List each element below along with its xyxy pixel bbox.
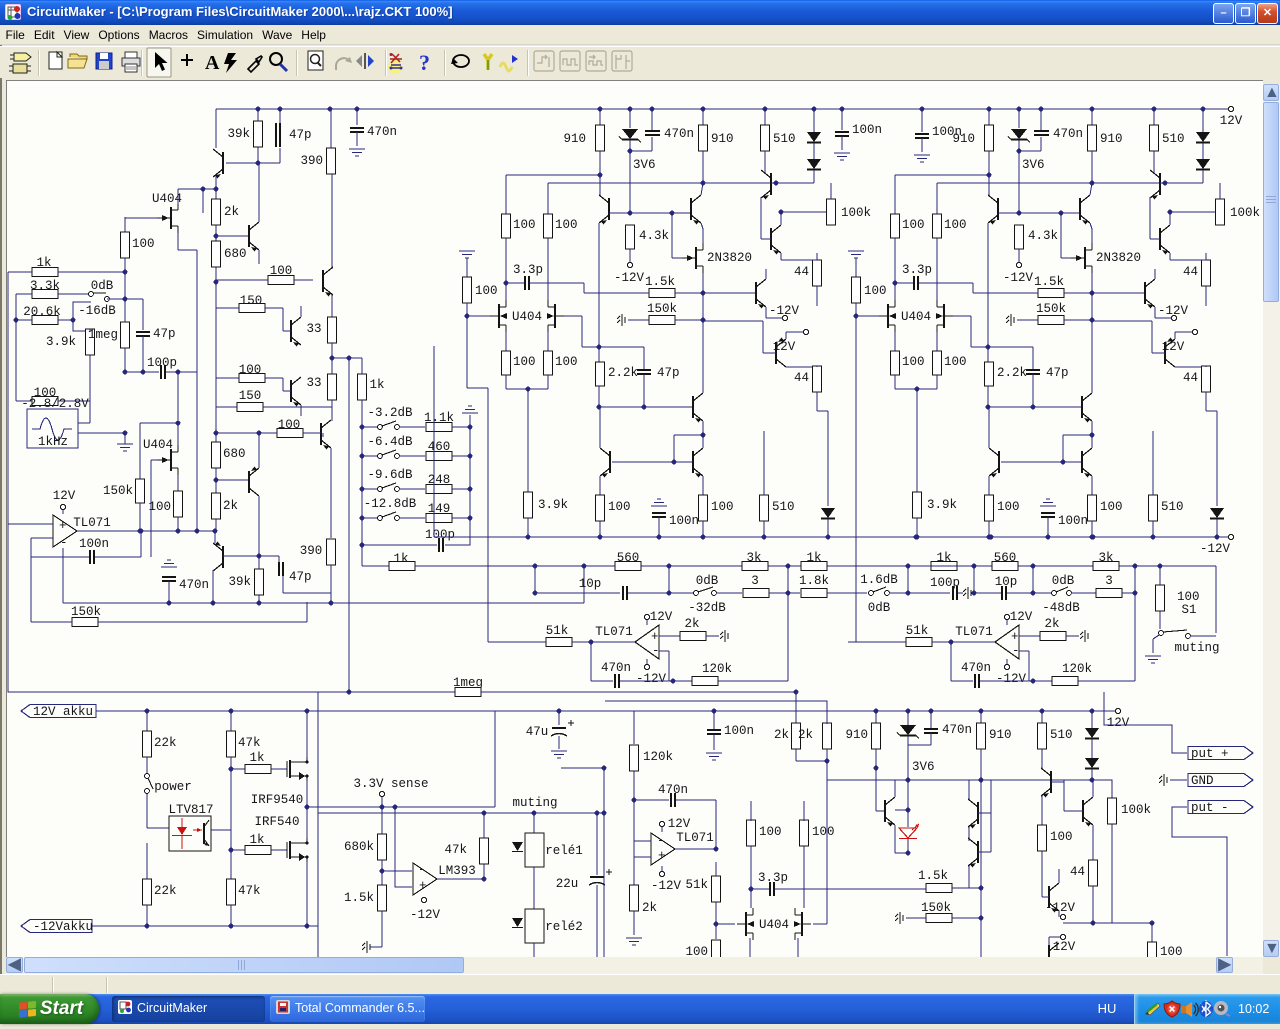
svg-text:-32dB: -32dB: [688, 601, 726, 615]
wire L Q8 coll: [599, 407, 601, 448]
wire R Q2 coll link: [1090, 183, 1092, 195]
junction rail x599: [598, 107, 603, 112]
terminal -12V aux: [659, 871, 664, 876]
wire 3R lead: [1071, 592, 1096, 594]
svg-text:3.9k: 3.9k: [538, 498, 568, 512]
capacitor L 100n out: [652, 513, 699, 528]
resistor 22k a: [143, 731, 177, 757]
wire svL minus lead: [659, 650, 669, 652]
language indicator HU: [1092, 994, 1122, 1024]
junction svL fb node: [671, 679, 676, 684]
svg-text:12V: 12V: [1107, 716, 1130, 730]
svg-text:120k: 120k: [702, 662, 732, 676]
wire 1k ladder top: [361, 358, 363, 374]
terminal 12V rail: [1228, 106, 1233, 111]
resistor R 100 drainR: [933, 214, 967, 238]
resistor svL 2k op: [680, 617, 706, 641]
wire u404b drain: [177, 423, 179, 445]
wire r2 left: [216, 307, 239, 309]
op-amp TL071 servo L: [53, 515, 77, 547]
svg-text:10:02: 10:02: [1238, 1002, 1269, 1016]
svg-text:1meg: 1meg: [88, 328, 118, 342]
transistor Q17: [321, 420, 331, 450]
wire R 3.3p lead L: [895, 282, 913, 284]
wire gate riser: [124, 217, 126, 299]
wire 150k riser: [139, 423, 141, 479]
wire R 1.5k left: [973, 292, 1038, 294]
resistor 33 b: [328, 374, 337, 400]
magnifier: [270, 53, 282, 65]
svg-text:TL071: TL071: [676, 831, 714, 845]
wire 100 e bottom: [1041, 851, 1043, 897]
capacitor 100p mid: [953, 586, 957, 600]
svg-text:12V: 12V: [650, 610, 673, 624]
svg-text:120k: 120k: [643, 750, 673, 764]
svg-text:47u: 47u: [526, 725, 549, 739]
junction b188b: [214, 187, 219, 192]
resistor 2k low: [212, 493, 239, 519]
wire 22k a bottom: [146, 757, 148, 773]
wire L Q3 emit riser: [760, 197, 762, 239]
wire row565: [415, 565, 930, 567]
svg-text:470n: 470n: [658, 783, 688, 797]
wire q22 base: [1051, 781, 1064, 783]
junction rail710 x875: [874, 709, 879, 714]
junction rail x629: [628, 107, 633, 112]
wire bus 700: [605, 701, 827, 761]
svg-text:2.2k: 2.2k: [997, 366, 1027, 380]
svg-text:44: 44: [794, 371, 809, 385]
wire 100 h bottom: [803, 846, 805, 908]
svg-text:100: 100: [475, 284, 498, 298]
wire R 100k top: [1219, 183, 1221, 199]
wire 3.9k top: [89, 329, 91, 331]
wire L gateL lead: [467, 315, 491, 317]
svg-text:IRF540: IRF540: [254, 815, 299, 829]
wire 1032 riser: [1032, 566, 1034, 593]
junction rail x257: [256, 107, 261, 112]
junction L outA rail: [598, 535, 603, 540]
capacitor 100p in: [161, 365, 165, 379]
ground 100n a: [834, 153, 850, 160]
wire x603: [561, 768, 604, 957]
svg-text:100: 100: [759, 825, 782, 839]
browse parts icon: [9, 53, 31, 73]
capacitor 3.3p b: [758, 871, 788, 896]
svg-text:47p: 47p: [1046, 366, 1069, 380]
transistor Q20: [968, 799, 978, 829]
svg-text:100n: 100n: [852, 123, 882, 137]
svg-text:1k: 1k: [249, 833, 264, 847]
wire 470n out bottom: [168, 581, 170, 603]
wire R outA bottom: [988, 521, 990, 537]
wire row779 ext: [981, 780, 1112, 799]
transistor Q21: [968, 838, 978, 868]
junction row565R x1032: [1031, 564, 1036, 569]
wire R 44a top: [1205, 253, 1207, 260]
wire L darl drop: [673, 435, 675, 462]
svg-text:100: 100: [1050, 830, 1073, 844]
resistor R 100 drainL: [891, 214, 925, 238]
wire L gnd to R100: [466, 258, 468, 277]
transistor L Q5: [756, 279, 766, 309]
wire fb drop b: [715, 800, 717, 849]
wire 787 riser: [787, 566, 789, 593]
wire R Q5 term lead: [1155, 317, 1171, 319]
svg-text:put -: put -: [1191, 801, 1229, 815]
wire R D3 bottom: [1216, 519, 1218, 537]
svg-text:relé1: relé1: [545, 844, 583, 858]
wire L Q1 coll: [599, 175, 601, 195]
svg-text:-12V: -12V: [1045, 901, 1076, 915]
wire L 12V lead: [786, 331, 803, 333]
junction n281: [214, 280, 219, 285]
resistor 44 c: [1070, 860, 1098, 886]
svg-text:510: 510: [1050, 728, 1073, 742]
wire col215: [215, 282, 217, 308]
wire 3.3p b out: [775, 888, 881, 890]
resistor 3 L: [743, 589, 769, 598]
wire L gateR link: [582, 346, 599, 348]
capacitor 100n fb: [90, 550, 94, 564]
svg-text:2N3820: 2N3820: [1096, 251, 1141, 265]
wire 47p bottom: [142, 336, 144, 372]
svg-text:390: 390: [300, 544, 323, 558]
ground 100n c: [706, 753, 722, 760]
junction L n346: [597, 345, 602, 350]
wire 100p mid lead: [908, 592, 950, 594]
JFET U404 1: [157, 203, 178, 233]
diode L D2: [807, 159, 821, 170]
wire L 910b top: [702, 109, 704, 125]
svg-text:100p: 100p: [147, 356, 177, 370]
resistor 1k L2: [801, 562, 827, 571]
transistor Q18: [249, 467, 259, 497]
resistor R 910a: [952, 125, 993, 151]
junction rail710 x558: [557, 709, 562, 714]
wire R 2.2k bottom: [987, 386, 989, 407]
MOSFET IRF9540: [287, 757, 309, 781]
signal ground GND flag: [1159, 774, 1167, 786]
svg-text:100n: 100n: [669, 514, 699, 528]
new: [49, 52, 62, 69]
wire L drainL riser: [505, 175, 507, 214]
wire L 1.5k left: [584, 292, 649, 294]
wire ladder -6.4dB mid: [399, 455, 425, 457]
wire 100p gnd lead: [958, 592, 963, 594]
wire q22 coll: [1041, 763, 1043, 768]
resistor 39k low: [228, 569, 263, 595]
wire R zener top: [1018, 109, 1020, 128]
wire R Q2 emit link: [1090, 223, 1092, 229]
wire -16dB throw: [73, 302, 91, 331]
junction row592 aa: [667, 591, 672, 596]
resistor L 910a: [563, 125, 604, 151]
svg-text:0dB: 0dB: [868, 601, 891, 615]
wire aux col: [633, 841, 635, 857]
wire svR 120k out: [1078, 680, 1135, 682]
wire L 12V drop: [785, 332, 787, 339]
wire L 510 bottom: [764, 151, 766, 173]
wire R R100 to gate: [855, 303, 857, 316]
wire n249 drop: [196, 250, 198, 372]
wire L 3.3p drop: [583, 283, 585, 293]
resistor 100 f: [1148, 942, 1183, 960]
wire 150k fb right: [98, 621, 307, 623]
wire r1 left: [216, 279, 268, 281]
wire R 3.9k to rail: [916, 518, 918, 537]
ground R 100n out: [1040, 499, 1056, 506]
resistor R 100 outA: [985, 495, 1020, 521]
svg-text:-12.8dB: -12.8dB: [364, 497, 417, 511]
resistor 100 r1: [268, 276, 294, 285]
wire L 2.2k top: [598, 347, 600, 362]
wire L srcL tail: [505, 375, 507, 389]
wire 47k b top: [230, 830, 232, 879]
wire 47p top drop: [279, 148, 281, 163]
resistor svL 120k: [692, 662, 732, 686]
wire R darl link: [1063, 434, 1092, 436]
resistor L 100 outB: [699, 495, 734, 521]
wire lm393 minus: [382, 870, 412, 872]
wire L Q10 emit: [702, 476, 704, 495]
wire zener c bottom: [907, 736, 909, 827]
junction rail710 x1041: [1040, 709, 1045, 714]
junction n432b: [257, 431, 262, 436]
junction L tail: [526, 387, 531, 392]
svg-text:510: 510: [773, 132, 796, 146]
svg-text:100: 100: [555, 218, 578, 232]
resistor 149: [426, 514, 452, 523]
resistor 1meg: [88, 322, 130, 348]
wire 433 riser: [433, 346, 435, 537]
svg-text:12V: 12V: [1220, 114, 1243, 128]
wire left bus: [7, 272, 9, 524]
wire R vas riser: [1091, 293, 1093, 384]
wire R Q4 emit: [1169, 253, 1171, 260]
window title bar: [0, 0, 1280, 25]
wire u404c gateL lead: [716, 923, 735, 925]
wire svR minus drop: [1028, 651, 1030, 681]
wire 1.5k b right: [952, 887, 981, 889]
transistor R Q7: [1082, 393, 1092, 423]
junction R n406b: [1031, 405, 1036, 410]
wire svL 2k gnd lead: [706, 635, 719, 637]
transistor L Q7: [693, 393, 703, 423]
wire 2k pair link: [796, 760, 827, 762]
wire L Q5 term lead: [766, 317, 782, 319]
wire R 910a bottom: [988, 151, 990, 175]
JFET R 2N3820: [1071, 243, 1092, 273]
wire src gnd drop: [124, 433, 126, 444]
resistor 390 top: [300, 148, 335, 174]
wire R Q4 base: [1150, 238, 1160, 240]
ground 47u: [551, 751, 567, 758]
op-amp marks tl1: [59, 519, 68, 550]
wire R cap stub: [1040, 137, 1042, 151]
wire u404c srcL: [749, 938, 751, 957]
svg-text:39k: 39k: [228, 575, 251, 589]
wire L 510low top: [763, 431, 765, 495]
junction q11 rail: [211, 601, 216, 606]
op-amp svL TL071: [635, 625, 659, 659]
wire 980 col: [980, 780, 982, 918]
wire r3 right: [265, 377, 283, 379]
transistor Q24: [1049, 883, 1059, 913]
junction n479: [214, 478, 219, 483]
svg-text:910: 910: [1100, 132, 1123, 146]
terminal svR 12V: [1004, 614, 1009, 619]
wire 3R out: [1122, 592, 1135, 594]
wire R 47p bottom: [1032, 374, 1034, 407]
ground ladder: [462, 406, 478, 413]
wire L zener top: [629, 109, 631, 128]
resistor R 44b: [1183, 366, 1211, 392]
capacitor R 470n: [1034, 127, 1083, 141]
junction 1.5k out: [979, 886, 984, 891]
wire 47k a top: [230, 711, 232, 731]
junction drain2: [176, 421, 181, 426]
wire 150k bottom: [139, 503, 141, 531]
wire L srcR tail: [547, 375, 549, 389]
wire aux v-: [661, 866, 663, 871]
wire q23 base riser: [1063, 782, 1065, 811]
junction 470n rail: [167, 601, 172, 606]
wire 2k1 bottom: [215, 225, 217, 241]
junction n162: [256, 161, 261, 166]
wire R 2N3820 gate: [1061, 257, 1071, 259]
svg-text:100: 100: [1177, 590, 1200, 604]
wire 33 to ladder: [332, 357, 362, 359]
capacitor 47p top: [276, 123, 312, 147]
svg-text:44: 44: [794, 265, 809, 279]
wire q17 emit drop: [330, 448, 332, 538]
wire L 44a link: [781, 259, 817, 261]
junction L n406b: [642, 405, 647, 410]
wire fb to 1meg: [348, 358, 350, 692]
junction R n182: [1090, 181, 1095, 186]
wire R srcR tail: [936, 375, 938, 389]
wire 100 S1 top: [1159, 566, 1161, 585]
svg-text:100: 100: [902, 218, 925, 232]
svg-text:3V6: 3V6: [912, 760, 935, 774]
zener L 3V6: [619, 129, 641, 143]
junction L base node: [628, 211, 633, 216]
svg-text:100n: 100n: [932, 125, 962, 139]
svg-text:3.9k: 3.9k: [927, 498, 957, 512]
junction 33ab: [330, 356, 335, 361]
resistor R 3.9k: [913, 492, 958, 518]
junction x603: [602, 766, 607, 771]
switch -9.6dB: [378, 483, 400, 491]
junction R n174: [987, 173, 992, 178]
wire 390low bottom: [330, 565, 332, 603]
wire L 3.3p lead R: [530, 282, 584, 284]
save: [96, 53, 112, 69]
wire svR plus lead: [1019, 635, 1040, 637]
svg-text:100: 100: [1100, 500, 1123, 514]
svg-text:+: +: [1011, 630, 1019, 644]
junction fb 1meg: [347, 690, 352, 695]
wire r4 drop: [331, 407, 333, 421]
junction u404c gateL: [714, 922, 719, 927]
svg-text:2k: 2k: [224, 205, 239, 219]
resistor R 510: [1150, 125, 1185, 151]
wire 1meg right: [481, 691, 796, 693]
junction n371c: [176, 370, 181, 375]
svg-text:100: 100: [711, 500, 734, 514]
wire q12 base: [226, 162, 258, 164]
wire R 2.2k top: [987, 347, 989, 362]
wire 9540 src: [306, 781, 308, 807]
junction R n319: [1090, 318, 1095, 323]
svg-text:3.3p: 3.3p: [758, 871, 788, 885]
wire 1k a lead: [231, 768, 245, 770]
wire col215b: [215, 407, 217, 443]
svg-text:3V6: 3V6: [633, 158, 656, 172]
junction row565 x534: [533, 564, 538, 569]
resistor L 3.9k: [524, 492, 569, 518]
wire 3.3p b lead: [751, 888, 769, 890]
svg-text:47k: 47k: [238, 736, 261, 750]
connector put -: [1188, 801, 1253, 816]
junction L 3.3p L: [504, 281, 509, 286]
wire -12Vakku rail: [92, 925, 318, 927]
ground S1: [1145, 656, 1161, 663]
resistor 100 r3: [239, 374, 265, 383]
wire sense stub: [381, 797, 383, 807]
wire L base link: [630, 212, 672, 214]
wire q15 base: [283, 330, 291, 332]
transistor Q11: [213, 542, 223, 572]
resistor 560 R: [992, 562, 1018, 571]
svg-text:TL071: TL071: [595, 625, 633, 639]
zener R 3V6: [1008, 129, 1030, 143]
resistor 1k in: [32, 268, 58, 277]
wire 33b top: [331, 358, 333, 374]
wrench Y: [484, 54, 492, 70]
transistor L Q3: [761, 170, 771, 200]
wire 10p R out: [1007, 592, 1033, 594]
wire sw lead: [669, 592, 693, 594]
wire q14 emit link: [331, 295, 333, 317]
wire q21 emit link: [969, 887, 981, 889]
wire L 2.2k bottom: [598, 386, 600, 407]
junction rail536 x1092: [1091, 535, 1096, 540]
wire 100 S1 bottom: [1159, 611, 1161, 629]
svg-text:100: 100: [555, 355, 578, 369]
junction L n182: [701, 181, 706, 186]
wire L 47p bottom: [643, 374, 645, 407]
wire 100p left: [125, 371, 159, 373]
wire L diode low top: [827, 411, 829, 506]
wire +12V top rail: [216, 108, 1228, 110]
wire q19 coll: [894, 780, 896, 797]
wire svR fb right: [980, 680, 1033, 682]
wire R base link: [1019, 212, 1061, 214]
wire switch pole: [107, 298, 125, 300]
wire L diode bottom: [813, 170, 815, 183]
wire fet riser: [177, 372, 179, 420]
svg-text:1k: 1k: [249, 751, 264, 765]
wire R 910a top: [988, 109, 990, 125]
junction row592 a: [533, 591, 538, 596]
wire 1.8k lead: [788, 592, 800, 594]
wire 100n c top: [713, 711, 715, 729]
wire r3 drop: [282, 378, 284, 391]
resistor 47k b: [227, 879, 261, 905]
wire 120k b top: [633, 711, 635, 744]
